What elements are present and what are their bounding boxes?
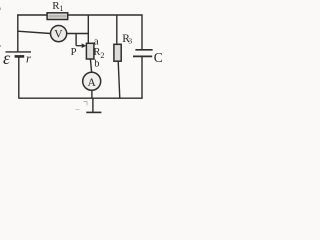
- speck artifact left edge: [0, 8, 2, 11]
- wire R2 to ammeter: [90, 59, 91, 72]
- wire R3 branch from top: [116, 15, 118, 45]
- capacitor C bottom plate: [133, 55, 152, 57]
- svg-text:R: R: [93, 47, 100, 58]
- wire R2 branch from top: [87, 15, 89, 44]
- voltmeter V circle U1: [51, 25, 67, 41]
- wire bottom: [18, 97, 142, 99]
- svg-text:a: a: [94, 35, 99, 47]
- wire right vertical upper (to capacitor): [141, 15, 143, 50]
- rheostat R2 box: [86, 43, 94, 59]
- ground stem: [92, 98, 94, 112]
- capacitor C top plate: [135, 49, 152, 51]
- wire left vertical (battery branch lower): [18, 56, 20, 98]
- svg-text:2: 2: [100, 51, 104, 60]
- svg-text:V: V: [54, 29, 63, 41]
- wiper arrow into R2: [76, 45, 83, 47]
- svg-text:P: P: [71, 47, 77, 58]
- battery short thick plate: [15, 55, 25, 58]
- battery E r : long plate: [6, 51, 32, 53]
- svg-text:C: C: [154, 50, 163, 65]
- svg-text:3: 3: [128, 37, 132, 46]
- artifact faint marks bottom: [76, 109, 80, 111]
- svg-text:A: A: [88, 77, 97, 89]
- wire R3 to bottom: [118, 61, 120, 98]
- svg-text:b: b: [94, 58, 99, 69]
- svg-text:r: r: [26, 52, 31, 66]
- wire right vertical lower (capacitor to bottom): [141, 56, 143, 98]
- wire wiper drop P: [75, 34, 77, 46]
- resistor R3 box: [114, 44, 121, 61]
- svg-text:1: 1: [59, 4, 63, 13]
- speck artifact left mid: [0, 45, 2, 47]
- artifact faint bracket below ground: [84, 102, 88, 106]
- wire ammeter to bottom: [91, 90, 93, 98]
- wire left vertical (battery branch upper): [17, 14, 19, 51]
- svg-text:ε: ε: [3, 48, 11, 68]
- ammeter A circle: [83, 72, 101, 90]
- wire voltmeter branch: [18, 31, 51, 33]
- resistor R1: [47, 13, 68, 20]
- ground bar: [86, 111, 101, 113]
- resistor R1 inner shade: [49, 15, 67, 18]
- wire voltmeter to node a branch: [67, 33, 89, 35]
- wire top: battery node to capacitor branch: [17, 14, 142, 16]
